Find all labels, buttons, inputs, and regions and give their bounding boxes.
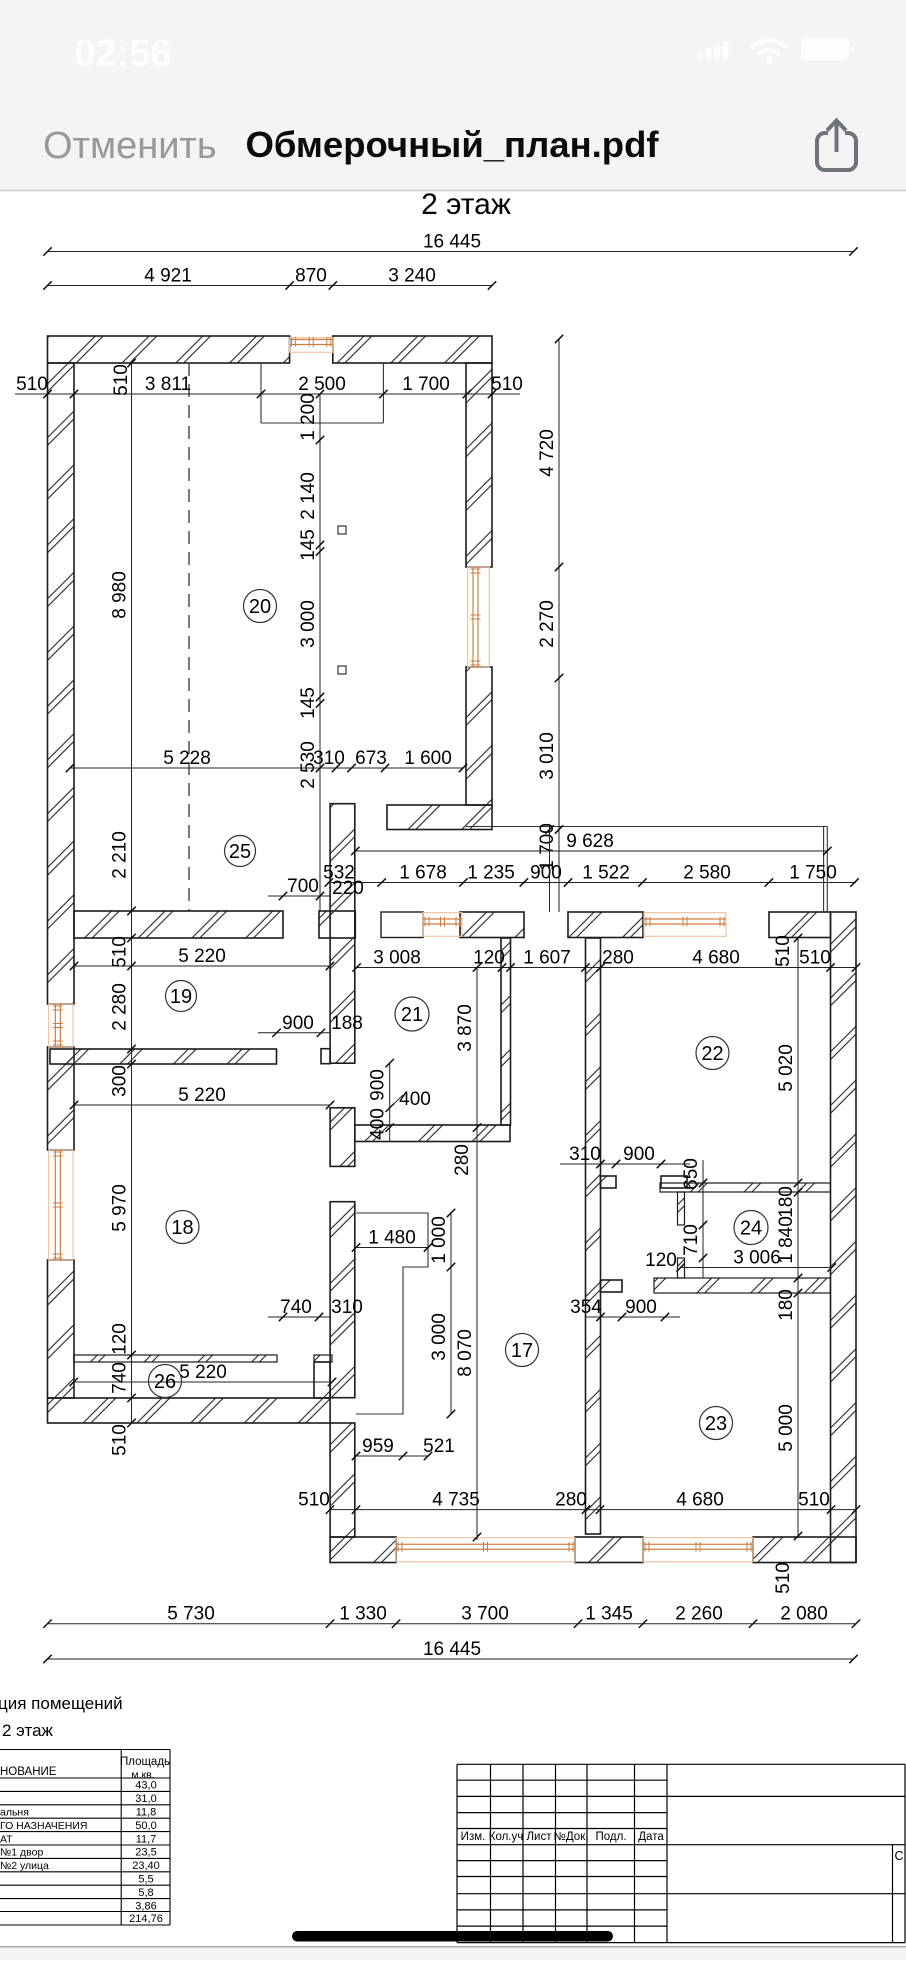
window left wall room 18 lower: [49, 1150, 73, 1260]
wall top band pier A: [460, 912, 524, 938]
wall bottom right corner: [753, 1537, 856, 1563]
wall right outer of lower block: [831, 912, 857, 1563]
dimension line 16445 top: [43, 232, 857, 256]
wall between rooms 25 and 19: [74, 911, 283, 938]
status bar battery: [801, 38, 849, 61]
svg-text:510: 510: [491, 374, 523, 395]
bottom toolbar separator: [0, 1946, 906, 1948]
corridor wall upper: [330, 804, 355, 1063]
svg-text:120: 120: [473, 948, 505, 969]
wall between rooms 21 and 17 arm: [501, 938, 511, 1125]
svg-text:5 730: 5 730: [167, 1604, 215, 1625]
wall right of room 20 upper: [466, 363, 492, 567]
svg-text:альня: альня: [0, 1807, 29, 1819]
svg-text:11,7: 11,7: [136, 1833, 157, 1845]
svg-text:280: 280: [602, 948, 634, 969]
svg-text:2 080: 2 080: [780, 1604, 828, 1625]
dimension line room 20 top interior: [15, 374, 523, 398]
dimension line room 19 width: [70, 946, 334, 970]
wall bottom pier: [575, 1537, 643, 1563]
svg-text:900: 900: [623, 1144, 655, 1165]
svg-text:1 480: 1 480: [368, 1228, 416, 1249]
svg-text:4 921: 4 921: [144, 266, 192, 287]
svg-text:510: 510: [110, 1424, 131, 1456]
svg-text:Кол.уч: Кол.уч: [489, 1831, 524, 1843]
wall left of room 24 lower: [678, 1258, 685, 1278]
dimension line lower block rooms top widths: [352, 948, 860, 972]
status bar signal bars: [697, 41, 729, 60]
wall bottom left corner of lower block: [330, 1537, 396, 1563]
svg-text:23,5: 23,5: [135, 1847, 156, 1859]
column marker B: [338, 666, 346, 674]
svg-text:8 070: 8 070: [455, 1329, 476, 1377]
svg-text:25: 25: [229, 841, 251, 863]
svg-text:280: 280: [452, 1144, 473, 1176]
column marker A: [338, 526, 346, 534]
svg-text:№Док.: №Док.: [554, 1831, 589, 1843]
corridor wall pilaster: [314, 1362, 330, 1398]
status and navigation bar background: [0, 0, 906, 190]
svg-text:3 010: 3 010: [537, 732, 558, 780]
label 9628: [355, 850, 827, 852]
svg-text:9 628: 9 628: [566, 831, 614, 852]
dimension line door room 22: [560, 1144, 690, 1168]
svg-text:24: 24: [740, 1218, 762, 1240]
dimension line door room 26: [268, 1297, 363, 1321]
svg-text:3 870: 3 870: [455, 1004, 476, 1052]
stairs outline in room 17: [356, 1213, 428, 1414]
dimension line corridor door vertical: [368, 1059, 394, 1141]
window top wall: [290, 337, 333, 352]
window top band B: [644, 913, 726, 937]
svg-text:300: 300: [110, 1065, 131, 1097]
dimension line door room 23: [570, 1297, 680, 1321]
svg-text:220: 220: [332, 878, 364, 899]
svg-text:НОВАНИЕ: НОВАНИЕ: [0, 1766, 57, 1778]
svg-text:4 680: 4 680: [692, 948, 740, 969]
window bottom band B: [643, 1538, 753, 1562]
wall bottom of left block: [48, 1398, 331, 1423]
svg-text:2 270: 2 270: [537, 600, 558, 648]
svg-text:3,86: 3,86: [135, 1900, 156, 1912]
share icon: [817, 121, 856, 171]
dimension line room 17 vertical: [455, 963, 481, 1541]
dimension line top partial: [43, 266, 496, 290]
svg-text:400: 400: [399, 1089, 431, 1110]
svg-text:3 240: 3 240: [388, 266, 436, 287]
wall top band pier B: [568, 912, 643, 938]
corridor wall middle: [330, 1108, 355, 1167]
dimension line rooms 20-25 boundary: [66, 748, 467, 772]
dimension line room 26 width: [70, 1362, 337, 1386]
wall top, right of window: [333, 336, 492, 363]
svg-text:4 735: 4 735: [432, 1490, 480, 1511]
wall left outer upper: [48, 363, 75, 1004]
dimension line lower block bottom interior: [298, 1490, 860, 1514]
dimension line stairs widths: [352, 1436, 455, 1460]
svg-text:19: 19: [170, 986, 192, 1008]
svg-text:17: 17: [511, 1340, 533, 1362]
dimension line bottom partial: [43, 1604, 860, 1628]
svg-text:145: 145: [298, 687, 319, 719]
svg-text:1 600: 1 600: [404, 748, 452, 769]
svg-text:1 700: 1 700: [402, 374, 450, 395]
corridor wall lower: [330, 1202, 355, 1398]
leader label 400: [390, 1095, 403, 1108]
svg-text:650: 650: [681, 1158, 702, 1190]
room number 23: [700, 1407, 733, 1440]
open boundary dashed line rooms 20-25: [188, 363, 190, 911]
wall above room 26: [74, 1355, 277, 1362]
svg-text:280: 280: [555, 1490, 587, 1511]
svg-text:3 008: 3 008: [373, 948, 421, 969]
wall top band partition: [381, 912, 423, 938]
room number 25: [225, 836, 256, 867]
svg-text:5 020: 5 020: [776, 1044, 797, 1092]
title block table: [457, 1764, 905, 1942]
svg-text:1 607: 1 607: [523, 948, 571, 969]
svg-text:510: 510: [16, 374, 48, 395]
svg-text:710: 710: [681, 1224, 702, 1256]
svg-text:Площадь: Площадь: [120, 1756, 170, 1768]
dimension line right side of room 20: [537, 335, 563, 912]
svg-text:4 680: 4 680: [676, 1490, 724, 1511]
balcony outline line upper: [466, 826, 827, 828]
svg-text:1 678: 1 678: [399, 863, 447, 884]
svg-text:Отменить: Отменить: [43, 125, 217, 167]
dimension line balcony depth: [545, 825, 553, 912]
svg-text:5 970: 5 970: [110, 1184, 131, 1232]
wall between rooms 19 and 18: [50, 1049, 277, 1064]
svg-text:700: 700: [287, 876, 319, 897]
svg-text:1 000: 1 000: [429, 1216, 450, 1264]
svg-text:5 000: 5 000: [776, 1404, 797, 1452]
status bar wifi icon: [753, 40, 785, 54]
svg-text:8 980: 8 980: [110, 571, 131, 619]
wall bottom of room 20 right part: [387, 805, 492, 830]
room number 22: [696, 1037, 729, 1070]
balcony outline double line right: [823, 827, 825, 913]
svg-text:400: 400: [368, 1108, 389, 1140]
svg-text:1 235: 1 235: [467, 863, 515, 884]
dimension line room 24 width: [676, 1248, 836, 1272]
wall stub at corridor top: [319, 911, 355, 938]
svg-text:4 720: 4 720: [537, 429, 558, 477]
svg-text:2 этаж: 2 этаж: [421, 188, 511, 221]
svg-text:673: 673: [355, 748, 387, 769]
dimension line room 24 niche: [681, 1158, 707, 1192]
svg-text:510: 510: [298, 1490, 330, 1511]
explication table: [0, 1750, 170, 1926]
dimension line room 18 width: [70, 1085, 334, 1109]
wall between room 17 and rooms 22 23: [586, 938, 601, 1534]
svg-text:510: 510: [773, 935, 794, 967]
svg-text:120: 120: [110, 1323, 131, 1355]
svg-text:АТ: АТ: [0, 1833, 13, 1845]
niche outline in room 20: [260, 363, 262, 423]
svg-text:11,8: 11,8: [136, 1807, 157, 1819]
svg-text:5 220: 5 220: [178, 946, 226, 967]
svg-text:5 220: 5 220: [179, 1362, 227, 1383]
wall top, left of window: [48, 336, 290, 363]
wall top of room 24: [660, 1183, 830, 1192]
svg-text:5,8: 5,8: [138, 1887, 153, 1899]
dimension line room 20 vertical chain: [298, 390, 324, 911]
room number 24: [734, 1211, 768, 1245]
svg-text:21: 21: [401, 1004, 423, 1026]
svg-text:ГО НАЗНАЧЕНИЯ: ГО НАЗНАЧЕНИЯ: [0, 1820, 87, 1832]
room number 17: [506, 1334, 539, 1367]
corridor wall stub A: [321, 1049, 330, 1064]
dimension line room 24 door: [681, 1192, 707, 1278]
room number 20: [244, 590, 277, 623]
wall below room 21: [355, 1125, 510, 1142]
dimension line 16445 bottom: [43, 1639, 857, 1663]
svg-text:23: 23: [705, 1413, 727, 1435]
svg-text:3 006: 3 006: [733, 1248, 781, 1269]
wall left of room 24 upper: [678, 1192, 685, 1225]
svg-text:50,0: 50,0: [135, 1820, 156, 1832]
svg-text:310: 310: [313, 748, 345, 769]
svg-text:Изм.: Изм.: [461, 1831, 486, 1843]
svg-text:16 445: 16 445: [423, 1639, 481, 1660]
room number 19: [166, 981, 197, 1012]
svg-text:18: 18: [171, 1217, 193, 1239]
room number 18: [166, 1211, 199, 1244]
wall right of room 20 lower: [466, 667, 492, 805]
svg-text:16 445: 16 445: [423, 232, 481, 253]
svg-text:2 260: 2 260: [675, 1604, 723, 1625]
svg-text:1 522: 1 522: [582, 863, 630, 884]
svg-text:510: 510: [773, 1562, 794, 1594]
dimension line lower block top exterior: [323, 863, 859, 887]
svg-text:900: 900: [368, 1069, 389, 1101]
wall bottom of room 24: [654, 1278, 830, 1293]
room number 21: [395, 997, 429, 1031]
svg-text:180: 180: [776, 1289, 797, 1321]
dimension line right rooms vertical: [776, 934, 802, 1540]
svg-text:3 000: 3 000: [298, 600, 319, 648]
svg-text:2 580: 2 580: [683, 863, 731, 884]
svg-text:870: 870: [295, 266, 327, 287]
home indicator bar: [292, 1931, 613, 1942]
room number 26: [149, 1365, 182, 1398]
wall left outer mid: [48, 1047, 75, 1150]
svg-text:3 000: 3 000: [429, 1313, 450, 1361]
svg-text:2 210: 2 210: [110, 831, 131, 879]
svg-text:Лист: Лист: [527, 1831, 553, 1843]
dimension line door rooms 19-18: [258, 1013, 363, 1037]
wall stub below room 22 left: [601, 1176, 617, 1188]
wall left outer lower: [48, 1260, 75, 1398]
window top band A: [423, 913, 462, 937]
dimension line door room 25: [268, 876, 330, 900]
svg-text:310: 310: [331, 1297, 363, 1318]
svg-text:№1 двор: №1 двор: [0, 1847, 43, 1859]
wall top band corner pier: [769, 912, 831, 938]
wall above room 26 right piece: [314, 1355, 332, 1362]
svg-text:43,0: 43,0: [135, 1780, 156, 1792]
svg-text:02:56: 02:56: [74, 33, 171, 75]
svg-text:2 280: 2 280: [110, 983, 131, 1031]
svg-text:22: 22: [701, 1043, 723, 1065]
svg-text:№2 улица: №2 улица: [0, 1860, 49, 1872]
svg-text:310: 310: [569, 1144, 601, 1165]
svg-text:145: 145: [298, 529, 319, 561]
svg-text:740: 740: [280, 1297, 312, 1318]
wall stub below room 22 right: [661, 1176, 687, 1188]
svg-text:2 этаж: 2 этаж: [2, 1721, 54, 1740]
svg-text:3 811: 3 811: [145, 374, 191, 395]
window bottom band A: [396, 1538, 575, 1562]
svg-text:Обмерочный_план.pdf: Обмерочный_план.pdf: [245, 124, 659, 165]
svg-text:20: 20: [249, 596, 271, 618]
window right wall of room 20: [468, 567, 490, 667]
dimension line stairs upper width: [352, 1228, 432, 1252]
svg-text:900: 900: [282, 1013, 314, 1034]
svg-text:214,76: 214,76: [129, 1913, 163, 1925]
svg-text:31,0: 31,0: [135, 1793, 156, 1805]
svg-text:354: 354: [570, 1297, 602, 1318]
svg-text:959: 959: [362, 1436, 394, 1457]
svg-text:510: 510: [110, 936, 131, 968]
svg-text:1 345: 1 345: [585, 1604, 633, 1625]
svg-text:С: С: [894, 1849, 903, 1863]
svg-text:ция помещений: ция помещений: [0, 1694, 123, 1713]
svg-text:Подл.: Подл.: [595, 1831, 626, 1843]
svg-text:1 330: 1 330: [339, 1604, 387, 1625]
wall stub top of room 23: [601, 1280, 623, 1292]
svg-text:510: 510: [799, 948, 831, 969]
svg-text:120: 120: [645, 1250, 677, 1271]
svg-text:5 228: 5 228: [163, 748, 211, 769]
svg-text:900: 900: [530, 863, 562, 884]
dimension line left interior chain: [110, 359, 136, 1456]
svg-text:26: 26: [154, 1371, 176, 1393]
svg-text:900: 900: [625, 1297, 657, 1318]
svg-text:3 700: 3 700: [461, 1604, 509, 1625]
svg-text:1 750: 1 750: [789, 863, 837, 884]
svg-text:Дата: Дата: [638, 1831, 664, 1843]
svg-text:1 200: 1 200: [298, 393, 319, 441]
svg-text:521: 521: [423, 1436, 455, 1457]
svg-text:188: 188: [331, 1013, 363, 1034]
svg-text:510: 510: [798, 1490, 830, 1511]
window left wall room 18 upper: [49, 1004, 73, 1047]
dimension line stairs vertical: [429, 1209, 455, 1418]
wall left of lower block: [330, 1423, 355, 1537]
svg-text:510: 510: [111, 364, 132, 396]
svg-text:23,40: 23,40: [132, 1860, 160, 1872]
svg-text:5 220: 5 220: [178, 1085, 226, 1106]
svg-text:740: 740: [110, 1362, 131, 1394]
svg-text:180: 180: [776, 1186, 797, 1218]
svg-text:2 140: 2 140: [298, 472, 319, 520]
svg-text:5,5: 5,5: [138, 1874, 153, 1886]
